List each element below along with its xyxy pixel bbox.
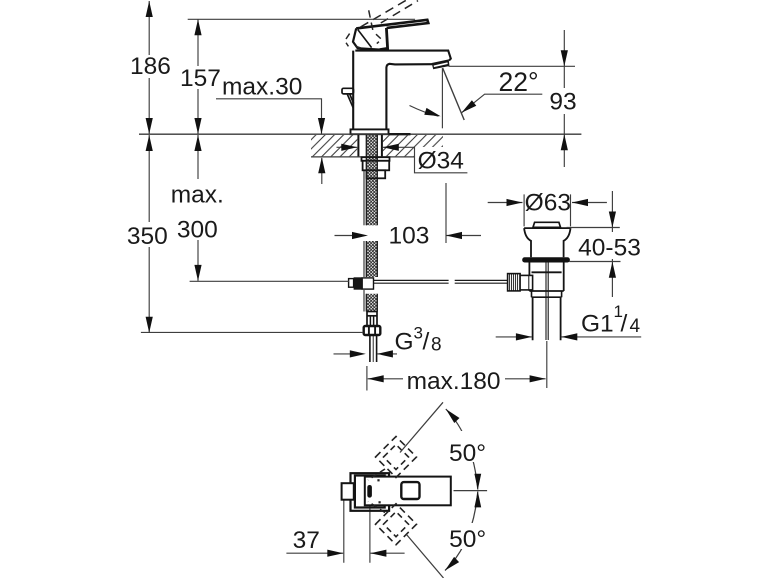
svg-text:4: 4 bbox=[630, 316, 641, 337]
mounting washer below deck bbox=[362, 157, 390, 161]
drain flange bbox=[524, 228, 570, 257]
93 arrows bbox=[561, 50, 568, 66]
drain nut band bbox=[532, 291, 562, 297]
plan view: lever arm bbox=[365, 477, 451, 506]
50° upper arc bbox=[446, 409, 478, 490]
50° swing diagonal upper bbox=[400, 402, 443, 452]
svg-text:8: 8 bbox=[431, 334, 442, 355]
svg-text:/: / bbox=[423, 329, 430, 356]
dim 40-53 extension lines bbox=[567, 228, 621, 262]
50° swing diagonal lower bbox=[407, 535, 444, 578]
svg-text:300: 300 bbox=[177, 217, 218, 244]
svg-text:103: 103 bbox=[389, 223, 430, 250]
handle raised position (dashed) bbox=[345, 0, 418, 49]
svg-text:22°: 22° bbox=[499, 67, 539, 97]
dim 186 line bbox=[148, 1, 150, 134]
plan view: handle base inner square bbox=[355, 476, 385, 508]
horizontal pull rod to drain bbox=[374, 280, 511, 283]
svg-text:max.: max. bbox=[171, 181, 224, 208]
nut step bbox=[367, 170, 386, 178]
countertop deck top line bbox=[139, 133, 581, 135]
faucet body outline bbox=[353, 51, 451, 130]
deck thickness arrow tail bbox=[321, 158, 323, 184]
350 arrows bbox=[146, 135, 153, 151]
svg-text:37: 37 bbox=[293, 527, 320, 554]
157 arrows bbox=[194, 19, 201, 35]
supply hose braided segment upper bbox=[364, 135, 377, 226]
max.300 reference line at pull rod bbox=[190, 280, 349, 282]
drain top cap bbox=[533, 222, 561, 227]
max.300 arrows bbox=[194, 135, 201, 151]
pop-up drain: pull rod knurled knob bbox=[508, 274, 533, 291]
svg-text:50°: 50° bbox=[449, 526, 486, 553]
22° water stream line bbox=[443, 68, 465, 120]
186 arrows bbox=[146, 1, 153, 17]
mounting nut bbox=[363, 161, 390, 171]
arrowheads bbox=[146, 1, 616, 557]
deck bottom line bbox=[311, 156, 415, 158]
deck edge emphasis right of base plate bbox=[389, 133, 411, 135]
svg-text:186: 186 bbox=[130, 53, 171, 80]
plan view: faucet body outer square bbox=[351, 473, 390, 511]
plan view: lever black mark bbox=[367, 485, 372, 498]
plan view 37 extension lines bbox=[344, 499, 370, 563]
dim max.180 line bbox=[368, 378, 546, 380]
plan view horizontal centerline bbox=[454, 490, 488, 492]
dashed rotated square upper outer bbox=[368, 437, 417, 545]
103 arrows bbox=[352, 232, 368, 239]
supply hose braided segment lower bbox=[364, 290, 377, 312]
dimension texts bbox=[127, 53, 641, 554]
G3/8 arrows bbox=[350, 350, 366, 357]
103 extension line (spout axis) bbox=[445, 183, 447, 243]
svg-text:max.180: max.180 bbox=[407, 368, 501, 395]
hose tee / pull rod connector bbox=[349, 277, 374, 289]
dim G3/8 lines bbox=[334, 353, 398, 355]
dim 40-53 line bbox=[611, 191, 613, 297]
G1 1/4 arrows bbox=[516, 333, 532, 340]
aerator (spout outlet) bbox=[432, 59, 450, 69]
plan view: lever square recess bbox=[401, 482, 419, 499]
plan view: spout tab left bbox=[342, 483, 354, 500]
40-53 arrows bbox=[609, 212, 616, 228]
dim G1 1/4 lines bbox=[496, 336, 642, 338]
350 reference line at hose end bbox=[141, 331, 363, 333]
svg-text:350: 350 bbox=[127, 223, 168, 250]
Ø63 arrows bbox=[507, 199, 523, 206]
37 arrows bbox=[327, 550, 343, 557]
dim 103 lines bbox=[335, 235, 482, 237]
max.30 leader bbox=[216, 99, 322, 134]
drain body bbox=[529, 263, 563, 292]
drain tailpipe bbox=[533, 297, 561, 340]
svg-text:157: 157 bbox=[180, 65, 221, 92]
max.180 extension lines bbox=[367, 341, 547, 391]
deck thickness arrow bbox=[318, 157, 325, 173]
dim 350 line bbox=[148, 135, 150, 333]
22° angle arc bbox=[410, 106, 439, 117]
deck section hatch bbox=[311, 135, 443, 156]
drain inner pop-up rod bbox=[546, 263, 548, 341]
dim 93 line bbox=[563, 30, 565, 167]
22° leader bbox=[462, 94, 543, 113]
Ø34 arrows bbox=[341, 144, 357, 151]
22° vertical reference line bbox=[441, 68, 443, 128]
svg-text:max.30: max.30 bbox=[222, 74, 302, 101]
faucet base plate bbox=[351, 129, 389, 134]
dim 37 lines bbox=[286, 552, 404, 554]
dim 157 line bbox=[197, 19, 199, 134]
G3/8 hose nut bbox=[364, 326, 381, 335]
faucet handle lever (solid) bbox=[353, 20, 428, 50]
pop-up rod knob on body bbox=[342, 88, 354, 108]
svg-text:Ø63: Ø63 bbox=[525, 190, 571, 217]
22° leader arrow bbox=[462, 100, 477, 113]
dimension lines (thin) bbox=[141, 1, 641, 563]
drain O-ring (black) bbox=[522, 257, 570, 262]
50° arc arrowheads bbox=[445, 409, 481, 571]
plan view: small pivot dots bbox=[377, 479, 379, 481]
dim Ø34 arrow lines + shelf bbox=[337, 146, 358, 148]
svg-text:/: / bbox=[621, 311, 628, 338]
svg-text:Ø34: Ø34 bbox=[418, 148, 464, 175]
hose visible through nut bbox=[366, 157, 377, 178]
22° arc arrow bbox=[424, 108, 440, 116]
hose crimp ferrule bbox=[367, 312, 377, 327]
svg-text:G: G bbox=[395, 329, 414, 356]
max.180 arrows bbox=[368, 375, 384, 382]
dim Ø63 extension lines bbox=[524, 194, 570, 226]
dim max.300 line bbox=[197, 135, 199, 281]
svg-text:93: 93 bbox=[549, 89, 576, 116]
G3/8 connector tube bbox=[370, 335, 377, 362]
aerator level extension line bbox=[449, 65, 576, 67]
50° lower arc bbox=[445, 492, 478, 571]
supply hose braided segment middle bbox=[364, 241, 377, 277]
max.30 arrow bbox=[318, 118, 325, 134]
mounting shank walls bbox=[358, 135, 382, 157]
157 extension line bbox=[188, 18, 415, 20]
text backgrounds bbox=[124, 55, 644, 549]
dim Ø63 arrow lines bbox=[488, 202, 607, 204]
svg-text:G1: G1 bbox=[581, 311, 614, 338]
svg-text:50°: 50° bbox=[449, 440, 486, 467]
svg-text:40-53: 40-53 bbox=[578, 235, 641, 262]
